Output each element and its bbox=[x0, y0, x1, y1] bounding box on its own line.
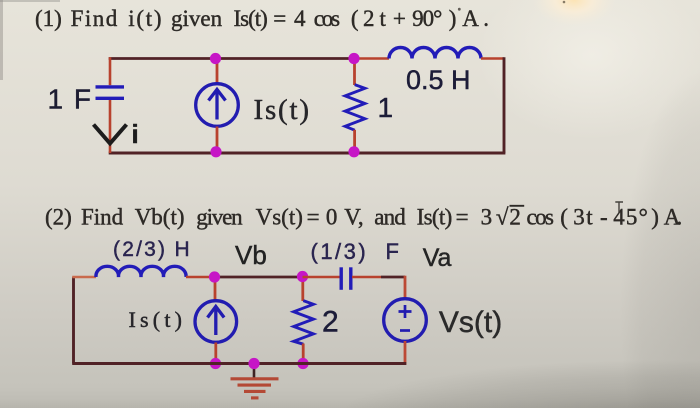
wire: C2 left side bbox=[72, 277, 75, 364]
wire: C1 right side bbox=[503, 57, 506, 153]
wire: resistor R2 lower stub bbox=[302, 344, 305, 364]
svg-text:i: i bbox=[132, 119, 139, 149]
resistor R2 2 ohm zigzag bbox=[294, 301, 314, 345]
svg-text:(2/3)H: (2/3)H bbox=[113, 238, 190, 261]
capacitor C2 (1/3) F plates bbox=[341, 267, 351, 290]
problem line 2: radical overline bbox=[510, 205, 525, 207]
node: C2 top junction at resistor bbox=[297, 271, 308, 282]
svg-text:Vb: Vb bbox=[235, 240, 267, 270]
node: ground junction on bottom rail bbox=[248, 358, 259, 369]
node: C1 top junction at resistor bbox=[348, 53, 359, 64]
wire: voltage source upper stub bbox=[404, 276, 407, 300]
node: C2 bottom junction below source bbox=[210, 358, 221, 369]
svg-text:(1/3)F: (1/3)F bbox=[311, 239, 399, 264]
svg-text:2: 2 bbox=[322, 306, 339, 339]
wire: current source Is upper stub bbox=[216, 59, 219, 85]
node: Vb junction on top rail bbox=[209, 271, 220, 282]
wire: C2 top rail capacitor to corner bbox=[352, 276, 381, 279]
svg-text:0.5 H: 0.5 H bbox=[406, 65, 471, 95]
wire: C1 top rail (left corner to resistor node) bbox=[109, 57, 355, 60]
resistor R1 1 ohm zigzag bbox=[345, 85, 365, 131]
wire: C2 bottom rail bbox=[72, 362, 406, 365]
wire: C1 top rail red segment into inductor bbox=[355, 57, 389, 60]
inductor L1 0.5 H bbox=[389, 48, 481, 59]
wire: resistor R2 upper stub bbox=[301, 277, 304, 302]
current arrow i (downward) bbox=[94, 125, 127, 144]
inductor L2 (2/3) H bbox=[96, 266, 186, 277]
ground symbol bbox=[231, 379, 279, 398]
svg-text:Va: Va bbox=[423, 244, 452, 272]
svg-text:(1)Findi(t)givenIs(t)=4cos(2t+: (1)Findi(t)givenIs(t)=4cos(2t+90°)A. bbox=[35, 6, 489, 31]
wire: current source Is2 upper stub bbox=[214, 277, 217, 301]
capacitor C1 1 F plates bbox=[96, 87, 125, 98]
node: C2 bottom junction at resistor bbox=[297, 358, 308, 369]
wire: C2 top rail resistor node to capacitor bbox=[303, 276, 341, 279]
voltage source Vs(t) bbox=[384, 299, 427, 342]
wire: resistor R1 upper stub bbox=[353, 59, 356, 86]
wire: C1 bottom rail bbox=[109, 152, 506, 155]
svg-text:Is(t): Is(t) bbox=[254, 94, 311, 126]
node: C1 bottom junction at resistor bbox=[348, 146, 359, 157]
wire: current source Is lower stub bbox=[216, 127, 219, 154]
stray mark above 45 bbox=[615, 202, 623, 213]
node: C1 bottom junction at source bbox=[210, 146, 221, 157]
svg-text:1 F: 1 F bbox=[48, 84, 93, 115]
speck above line 1 bbox=[458, 8, 461, 11]
wire: resistor R1 lower stub bbox=[353, 130, 356, 153]
wire: capacitor C1 branch upper stub bbox=[109, 57, 112, 85]
current source Is(t) circuit 1 bbox=[196, 84, 239, 127]
ground stub wire bbox=[253, 364, 256, 378]
wire: capacitor branch lower stub bbox=[109, 100, 112, 153]
svg-text:Is(t): Is(t) bbox=[129, 307, 187, 332]
wire: C2 top rail dark segment to right corner bbox=[381, 276, 405, 279]
wire: C1 top rail inductor to right corner bbox=[481, 57, 504, 60]
svg-text:Vs(t): Vs(t) bbox=[439, 306, 502, 339]
svg-text:1: 1 bbox=[378, 92, 394, 123]
wire: C2 top rail inductor to Vb node bbox=[186, 276, 215, 279]
node: C1 top junction at source bbox=[210, 53, 221, 64]
current source Is(t) circuit 2 bbox=[195, 301, 237, 343]
wire: current source Is2 lower stub bbox=[214, 343, 217, 364]
wire: C2 top-left red segment bbox=[72, 276, 96, 279]
wire: C2 top rail Vb node to resistor node bbox=[215, 276, 303, 279]
wire: voltage source lower stub bbox=[404, 341, 407, 365]
